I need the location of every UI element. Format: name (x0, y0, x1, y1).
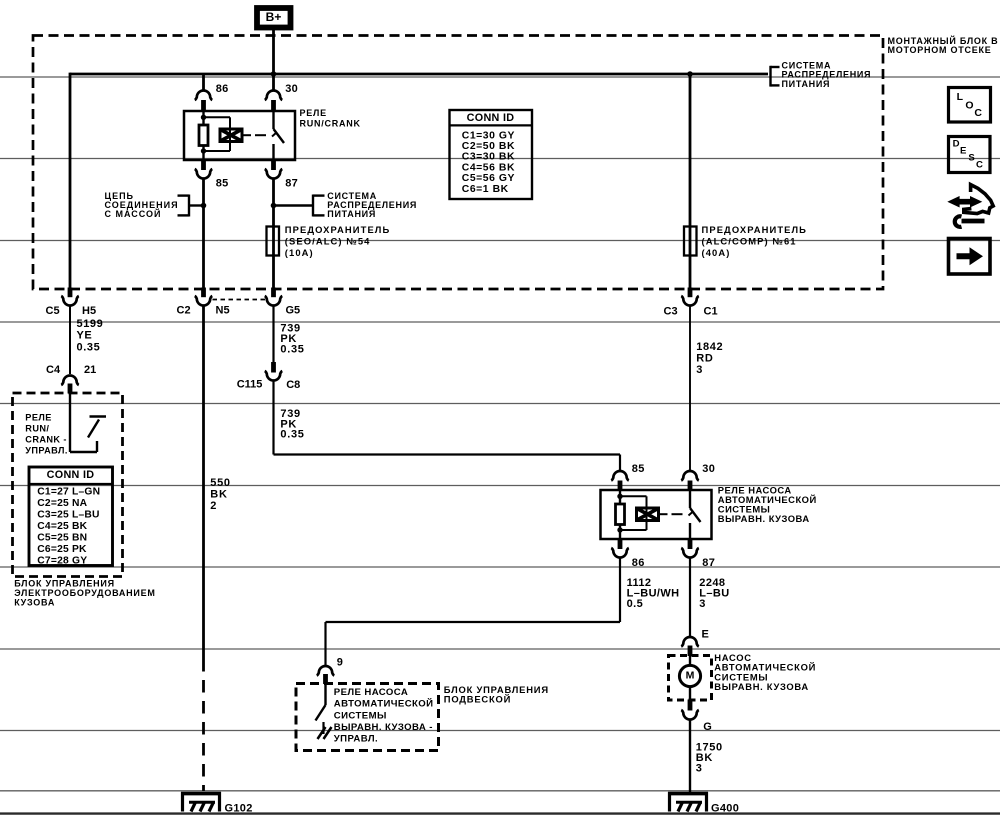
svg-text:РЕЛЕ: РЕЛЕ (25, 412, 51, 422)
icon DESC (949, 137, 991, 173)
junction node at B+ (271, 71, 277, 77)
svg-text:O: O (965, 99, 973, 111)
motor M level control pump (679, 656, 700, 700)
pin label 86 (216, 83, 229, 95)
svg-text:G400: G400 (711, 803, 739, 815)
svg-text:C5=25 BN: C5=25 BN (37, 533, 87, 544)
relay K1 RUN/CRANK (184, 111, 295, 160)
svg-text:C4=56 BK: C4=56 BK (462, 162, 515, 173)
svg-text:30: 30 (702, 463, 715, 475)
svg-text:C: C (976, 159, 983, 170)
svg-text:АВТОМАТИЧЕСКОЙ: АВТОМАТИЧЕСКОЙ (334, 698, 434, 710)
wire relay 87 to fuse 54 (272, 180, 275, 289)
connector terminal pin 30 (265, 74, 283, 112)
wire 5199 YE (69, 306, 71, 374)
connector terminal relay2 pin 87 (681, 539, 699, 558)
svg-text:3: 3 (696, 364, 703, 376)
svg-text:3: 3 (699, 598, 706, 610)
svg-text:ЭЛЕКТРООБОРУДОВАНИЕМ: ЭЛЕКТРООБОРУДОВАНИЕМ (14, 588, 155, 598)
svg-text:86: 86 (632, 557, 645, 569)
svg-text:C: C (974, 107, 982, 119)
junction node power distribution tap (271, 203, 277, 209)
svg-text:0.35: 0.35 (280, 344, 304, 356)
connector terminal relay2 pin 86 (611, 539, 629, 558)
wire label 739 PK 0.35 (lower) (280, 408, 304, 440)
svg-text:CRANK -: CRANK - (25, 434, 67, 444)
label pump relay control (334, 687, 434, 745)
pin label 87 (285, 178, 298, 190)
svg-text:87: 87 (702, 557, 715, 569)
wire power bus (70, 73, 768, 288)
wire label 1750 BK 3 (696, 741, 723, 774)
svg-text:(10А): (10А) (285, 247, 314, 258)
wire label 550 BK 2 (210, 477, 230, 512)
connector pin 9 suspension ECU (317, 656, 343, 684)
svg-text:2: 2 (210, 500, 217, 512)
connector G5 (265, 288, 300, 317)
wire 1842 RD (689, 306, 691, 471)
svg-text:РЕЛЕ: РЕЛЕ (300, 108, 327, 118)
svg-text:БЛОК УПРАВЛЕНИЯ: БЛОК УПРАВЛЕНИЯ (14, 579, 115, 589)
label body control module (14, 579, 155, 608)
svg-text:C3=25 L–BU: C3=25 L–BU (37, 510, 99, 521)
svg-text:21: 21 (84, 364, 96, 376)
connector terminal pin 87 (265, 160, 283, 179)
wire label 1112 L-BU/WH 0.5 (627, 577, 680, 610)
svg-text:C115: C115 (237, 378, 263, 390)
svg-text:C4: C4 (46, 364, 61, 376)
ground G400 (668, 792, 739, 815)
label pump (714, 652, 816, 692)
svg-text:E: E (702, 628, 709, 640)
label relay RUN/CRANK (300, 108, 361, 128)
pin label 85 (216, 178, 229, 190)
connector terminal pin 85 (195, 160, 213, 179)
wire bus to fuse 61 (689, 74, 692, 288)
svg-text:86: 86 (216, 83, 229, 95)
svg-text:H5: H5 (82, 305, 96, 317)
connector E pump (681, 628, 709, 656)
svg-text:(40А): (40А) (702, 247, 731, 258)
pin label 30 (285, 83, 298, 95)
svg-text:87: 87 (285, 178, 298, 190)
wire label 5199 YE 0.35 (77, 318, 104, 354)
suspension control module dashed box (296, 684, 439, 751)
svg-text:85: 85 (632, 463, 645, 475)
svg-text:С МАССОЙ: С МАССОЙ (105, 208, 162, 219)
svg-text:(SEO/ALC) №54: (SEO/ALC) №54 (285, 236, 371, 247)
svg-text:S: S (968, 152, 975, 163)
dashed link C2 to G5 (213, 299, 266, 301)
wire relay 85 to connector C2 (202, 180, 205, 289)
fuse F61 ALC/COMP 40A (684, 224, 807, 258)
connector terminal pin 86 (195, 91, 213, 112)
pin label 30 (relay2) (702, 463, 715, 475)
svg-text:C2=50 BK: C2=50 BK (462, 141, 515, 152)
svg-text:МОНТАЖНЫЙ БЛОК В: МОНТАЖНЫЙ БЛОК В (888, 35, 999, 46)
svg-text:ВЫРАВН. КУЗОВА: ВЫРАВН. КУЗОВА (714, 681, 809, 692)
svg-text:30: 30 (285, 83, 298, 95)
svg-text:G5: G5 (286, 304, 301, 316)
label suspension control module (444, 684, 549, 705)
switch pump relay driver (316, 684, 332, 739)
svg-text:СИСТЕМЫ: СИСТЕМЫ (334, 710, 387, 721)
svg-text:RD: RD (696, 353, 713, 365)
inline connector C115 pin C8 (237, 362, 301, 391)
svg-text:C2: C2 (177, 304, 191, 316)
wire label 739 PK 0.35 (upper) (280, 323, 304, 356)
svg-text:9: 9 (337, 656, 343, 668)
svg-text:YE: YE (77, 330, 93, 342)
svg-text:C6=25 PK: C6=25 PK (37, 544, 87, 555)
net: power distribution system (top) (771, 61, 872, 89)
svg-text:D: D (953, 139, 960, 150)
battery feed B+ (257, 8, 291, 28)
svg-text:0.35: 0.35 (280, 429, 304, 441)
connector C2/N5 (177, 288, 230, 317)
switch RUN/CRANK relay driver (70, 394, 106, 453)
svg-text:CONN ID: CONN ID (467, 112, 515, 124)
svg-text:C5: C5 (46, 305, 60, 317)
ground G102 (181, 792, 253, 814)
wire 1112 L-BU/WH (326, 558, 621, 666)
wire label 1842 RD 3 (696, 341, 723, 376)
svg-text:550: 550 (210, 477, 230, 489)
net: power distribution system (middle) (274, 191, 418, 219)
svg-text:C1=30 GY: C1=30 GY (462, 130, 515, 141)
pin label 85 (relay2) (632, 463, 645, 475)
svg-text:ПОДВЕСКОЙ: ПОДВЕСКОЙ (444, 694, 511, 705)
wire B+ to power bus (272, 30, 275, 74)
svg-text:C4=25 BK: C4=25 BK (37, 521, 87, 532)
svg-text:3: 3 (696, 762, 703, 774)
pin label 87 (relay2) (702, 557, 715, 569)
svg-text:CONN ID: CONN ID (47, 469, 95, 481)
svg-text:G: G (703, 721, 712, 733)
svg-text:КУЗОВА: КУЗОВА (14, 598, 55, 608)
svg-text:5199: 5199 (77, 318, 104, 330)
svg-text:C1=27 L–GN: C1=27 L–GN (37, 487, 100, 498)
svg-text:РЕЛЕ НАСОСА: РЕЛЕ НАСОСА (334, 687, 408, 698)
svg-text:C8: C8 (286, 379, 300, 391)
wire 550 BK (202, 306, 205, 659)
icon go-to arrow (949, 239, 991, 275)
svg-text:B+: B+ (266, 10, 282, 24)
connector G pump (681, 700, 712, 734)
connector C5/H5 (46, 288, 97, 318)
table CONN ID (BCM) (29, 467, 113, 567)
svg-text:C1: C1 (704, 305, 718, 317)
table CONN ID (fuse block) (450, 110, 533, 199)
svg-text:L: L (957, 91, 964, 103)
wire 739 PK upper (272, 306, 274, 362)
svg-text:85: 85 (216, 178, 229, 190)
svg-text:(ALC/COMP) №61: (ALC/COMP) №61 (702, 236, 797, 247)
svg-text:УПРАВЛ.: УПРАВЛ. (25, 445, 67, 455)
underhood electrical center dashed box (33, 36, 883, 290)
svg-text:G102: G102 (225, 802, 253, 814)
wire 550 BK dashed continuation (202, 659, 205, 791)
wire label 2248 L-BU 3 (699, 577, 729, 610)
connector terminal relay2 pin 30 (681, 471, 699, 491)
label: underhood fuse block (888, 35, 999, 55)
svg-text:ПИТАНИЯ: ПИТАНИЯ (327, 209, 376, 219)
svg-text:RUN/CRANK: RUN/CRANK (300, 118, 361, 128)
icon LOC (949, 88, 991, 123)
body control module dashed box (13, 393, 123, 577)
wire 1750 BK (689, 720, 691, 792)
svg-text:C7=28 GY: C7=28 GY (37, 556, 87, 567)
wire 739 PK to relay 85 (274, 381, 621, 471)
svg-text:УПРАВЛ.: УПРАВЛ. (334, 734, 378, 745)
svg-text:МОТОРНОМ ОТСЕКЕ: МОТОРНОМ ОТСЕКЕ (888, 45, 992, 55)
svg-text:C6=1 BK: C6=1 BK (462, 184, 509, 195)
svg-text:BK: BK (210, 489, 227, 501)
svg-text:ВЫРАВН. КУЗОВА -: ВЫРАВН. КУЗОВА - (334, 722, 433, 733)
wire bus to relay pin 86 (202, 74, 205, 91)
net: ground junction circuit (105, 191, 204, 219)
connector terminal relay2 pin 85 (611, 471, 629, 491)
pin label 86 (relay2) (632, 557, 645, 569)
label relay RUN/CRANK control (25, 412, 67, 455)
svg-text:C3: C3 (664, 305, 678, 317)
icon routing arrows (949, 185, 993, 227)
connector C3/C1 (664, 288, 718, 318)
svg-text:C2=25 NA: C2=25 NA (37, 498, 87, 509)
wire 2248 L-BU (689, 558, 691, 637)
svg-text:1842: 1842 (696, 341, 723, 353)
svg-text:ПИТАНИЯ: ПИТАНИЯ (782, 79, 831, 89)
svg-text:0.5: 0.5 (627, 598, 644, 610)
junction node ground-circuit tap (201, 203, 207, 209)
connector C4 pin 21 (46, 364, 96, 393)
svg-text:ВЫРАВН. КУЗОВА: ВЫРАВН. КУЗОВА (718, 513, 810, 524)
relay K2 level-control pump (601, 490, 712, 539)
fuse F54 SEO/ALC 10A (267, 224, 391, 258)
svg-text:C5=56 GY: C5=56 GY (462, 173, 515, 184)
junction node at fuse 61 branch (687, 71, 693, 77)
svg-text:RUN/: RUN/ (25, 423, 49, 433)
svg-text:0.35: 0.35 (77, 342, 101, 354)
svg-text:ПРЕДОХРАНИТЕЛЬ: ПРЕДОХРАНИТЕЛЬ (285, 224, 391, 235)
svg-text:N5: N5 (216, 304, 230, 316)
svg-text:E: E (960, 145, 967, 156)
svg-text:C3=30 BK: C3=30 BK (462, 152, 515, 163)
label pump relay (718, 484, 817, 524)
svg-text:ПРЕДОХРАНИТЕЛЬ: ПРЕДОХРАНИТЕЛЬ (702, 224, 808, 235)
pump motor dashed box (669, 656, 712, 701)
svg-text:M: M (686, 670, 695, 682)
